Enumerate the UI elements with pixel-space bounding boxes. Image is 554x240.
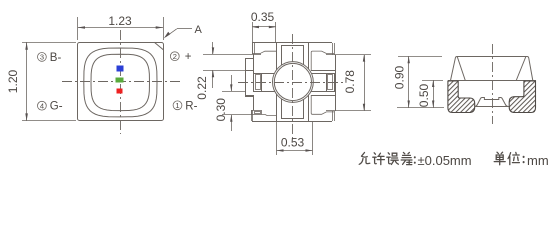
svg-text:1.20: 1.20 (6, 69, 20, 93)
svg-text:0.22: 0.22 (195, 76, 209, 100)
svg-text:1.23: 1.23 (108, 14, 132, 28)
pin label 2 + (170, 52, 179, 61)
svg-text:G-: G- (50, 101, 63, 113)
dimension 1.20 (left) (22, 42, 76, 44)
允 (359, 153, 370, 165)
dimension 1.23 (top) (77, 17, 79, 40)
left electrode boot (hatched) (448, 81, 475, 113)
right channel inner lines to circle (310, 73, 326, 75)
ledge line (448, 80, 536, 82)
reflector cup wall right (516, 57, 526, 81)
TL pad leadframe (252, 43, 254, 54)
svg-text:2: 2 (173, 52, 177, 61)
dimension 0.22 (middle left upper) (203, 54, 252, 56)
svg-text:A: A (195, 24, 203, 36)
位 (508, 152, 519, 164)
central circle (reflector) (273, 62, 314, 103)
bottom-right Chinese note (hand-drawn glyphs) (359, 152, 415, 164)
dimension 0.50 (side left inner) (422, 80, 443, 82)
left channel outer (246, 70, 254, 72)
dimension 0.35 (middle top) (252, 22, 254, 54)
BL pad leadframe (251, 110, 253, 121)
reflector cup wall left (457, 57, 465, 81)
svg-text:0.90: 0.90 (392, 65, 406, 89)
dimension 0.30 (middle left lower) (222, 91, 245, 93)
svg-text:0.78: 0.78 (343, 70, 357, 94)
horizontal centerline (62, 81, 182, 83)
svg-text:4: 4 (40, 101, 44, 110)
vertical centerline (120, 30, 122, 134)
right edge (335, 55, 337, 111)
pin label 1 R- (173, 101, 182, 110)
pin label 4 G- (38, 101, 47, 110)
svg-text:±0.05mm: ±0.05mm (418, 153, 472, 168)
TR pad leadframe (311, 51, 334, 70)
right anvil (327, 74, 335, 92)
green chip (116, 78, 124, 83)
bottom edge (252, 121, 332, 123)
许 (373, 153, 385, 165)
red chip (117, 89, 123, 94)
svg-text:1: 1 (175, 101, 179, 110)
svg-text:0.50: 0.50 (417, 83, 431, 107)
dimension 0.78 (middle right) (334, 54, 371, 56)
差 (401, 152, 412, 164)
blue chip (117, 66, 124, 72)
body outline top (451, 57, 533, 81)
svg-text:+: + (185, 51, 192, 63)
误 (387, 153, 399, 165)
right channel outer (311, 70, 336, 72)
left anvil (254, 74, 262, 92)
svg-text:R-: R- (185, 100, 197, 112)
: (414, 157, 416, 163)
单 (494, 152, 505, 165)
svg-text:B-: B- (50, 52, 62, 64)
outer squircle (reflector rim) (84, 48, 157, 117)
svg-text:0.30: 0.30 (214, 98, 228, 122)
svg-text:0.35: 0.35 (251, 10, 275, 24)
vertical centerline (492, 44, 494, 124)
svg-text:0.53: 0.53 (281, 136, 305, 150)
inner squircle (reflector opening) (91, 54, 150, 110)
pin label 3 B- (38, 53, 47, 62)
svg-text:3: 3 (40, 53, 44, 62)
left channel inner lines to circle (262, 73, 276, 75)
BR pad leadframe (311, 95, 334, 114)
recess floor (474, 106, 509, 108)
svg-text:mm: mm (527, 153, 549, 168)
corner chamfer notch A (154, 42, 163, 50)
dimension 0.90 (side left outer) (398, 56, 442, 58)
centerlines (238, 82, 344, 84)
dimension 0.53 (middle bottom) (276, 121, 278, 155)
right electrode boot (hatched) (509, 81, 535, 113)
crown (chip + dome contour) (475, 98, 508, 107)
package outer square (78, 43, 164, 121)
fullwidth colon (523, 157, 525, 162)
central band verticals (276, 43, 278, 121)
left edge (245, 58, 247, 97)
top edge (252, 42, 332, 44)
